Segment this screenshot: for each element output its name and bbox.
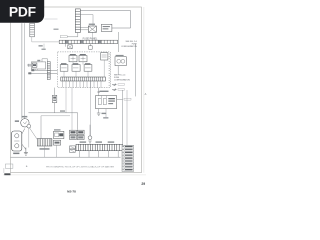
feeder wire to lamp cluster <box>71 88 73 131</box>
wire to terminal block <box>27 59 48 65</box>
breaker CB2 <box>72 63 80 71</box>
rectifier block (box with X) <box>88 26 96 32</box>
wires relays to terminal strip <box>64 60 104 77</box>
sheet code bottom left <box>4 173 10 175</box>
wire flasher down <box>117 66 119 75</box>
wire battery to ground <box>22 144 26 150</box>
revision box bottom left <box>4 164 13 173</box>
figure caption <box>26 165 115 168</box>
drop to connector box <box>40 116 42 139</box>
junction node circle <box>27 124 31 128</box>
diode D2 <box>54 140 61 145</box>
bus wire center (upper) <box>28 112 77 114</box>
second feed wire left <box>24 23 26 118</box>
fuse panel strip <box>59 40 117 43</box>
wires TB2 drops <box>79 151 118 158</box>
ground at battery <box>24 148 28 156</box>
connector C1 (vertical hatched) <box>47 62 50 80</box>
wire node to connector C2 <box>30 128 38 140</box>
wire stub from badge edge <box>45 19 59 30</box>
lamp L1 on center drop <box>52 88 56 113</box>
lamp cluster boxes <box>70 130 77 134</box>
horn relay label <box>100 91 109 92</box>
note SEE FIG 2-6 <box>121 41 137 48</box>
wire relay output right <box>117 98 131 100</box>
bus wire center (lower) <box>41 115 70 117</box>
fuse F1 below panel <box>66 44 73 49</box>
PDF badge overlay <box>0 0 44 23</box>
terminal strip TB2 (bottom) <box>76 144 122 150</box>
svg-text:A: A <box>145 92 147 96</box>
arrow tap A2 <box>112 89 125 91</box>
arrow tap A1 <box>112 84 125 86</box>
lamp cluster box 4 <box>77 135 84 139</box>
wire label on center bus <box>60 110 65 111</box>
svg-text:CONFIGURATION: CONFIGURATION <box>114 78 130 81</box>
wire J2 to fuse panel <box>32 37 59 42</box>
drop to lamp boxes <box>77 113 79 130</box>
wire battery to ammeter <box>22 129 25 135</box>
connector C2 (hatched box) <box>37 139 52 150</box>
svg-text:FUSE PANEL: FUSE PANEL <box>83 37 98 40</box>
feeder wire to center bus <box>65 88 67 113</box>
feed wire right pair <box>122 90 124 145</box>
dashed harness enclosure <box>58 52 111 88</box>
feed wire right pair b <box>126 90 128 145</box>
labels above bottom strip <box>80 141 115 142</box>
right margin feed wire <box>134 44 136 96</box>
wire relay coil up <box>97 88 100 96</box>
wires TB1 drops <box>63 81 102 88</box>
battery BAT <box>12 131 22 154</box>
svg-text:PDF: PDF <box>9 4 36 19</box>
wire C2 drop to bus <box>45 145 57 157</box>
lamp cluster box 2 <box>77 130 84 134</box>
wire from J1 to right margin <box>80 11 130 29</box>
breaker CB3 <box>84 63 92 71</box>
schematic sheet border frame <box>3 7 146 175</box>
ground below relay <box>97 109 106 116</box>
pigtail labels under fuse panel left <box>39 44 46 50</box>
legend table <box>122 145 134 171</box>
connector J2 (strip under badge) <box>30 23 35 37</box>
label above rectifier <box>89 24 95 25</box>
wire node to ground <box>28 128 30 147</box>
relay K2 <box>79 54 87 62</box>
wire bus into harness (lower) <box>28 72 57 74</box>
wire J1 to rectifier <box>80 28 88 30</box>
relay K3 <box>101 53 108 60</box>
common return wire (bottom bus) <box>11 156 121 158</box>
svg-text:CONFIGURATION: CONFIGURATION <box>121 45 137 48</box>
ammeter M1 <box>15 116 29 127</box>
wire bus into harness (upper) <box>31 69 57 71</box>
fuse F2 below panel <box>89 44 93 50</box>
main feed wire left (from J2 down) <box>21 23 23 119</box>
bulkhead hatching on enclosure right edge <box>109 54 111 85</box>
node label C2 wire <box>60 33 78 38</box>
connector C3 small stacked <box>70 146 76 153</box>
breaker CB1 <box>60 63 68 71</box>
ignition terminal block <box>31 60 45 69</box>
relay K1 <box>69 54 77 62</box>
horn relay box <box>96 96 117 109</box>
wire J1 branch to rectifier top <box>80 15 93 26</box>
relay aux terminal drop <box>103 109 108 119</box>
svg-text:PHOTOGRAPHIC HOOK-UP OF LIGHTS: PHOTOGRAPHIC HOOK-UP OF LIGHTS & BACK-UP… <box>46 165 114 168</box>
terminal strip TB1 inside harness box <box>61 77 106 81</box>
note SEE FIG 2-4 <box>114 74 130 81</box>
lamp cluster box 3 <box>70 135 77 139</box>
feeder wire to sender circuit <box>90 81 92 136</box>
wire fuse panel to flasher column <box>117 32 119 52</box>
connector J1 (top multi-pin strip) <box>75 9 80 33</box>
wire rectifier to fuse panel <box>91 32 93 40</box>
sender with lamp <box>88 125 92 144</box>
svg-text:NS-78: NS-78 <box>67 190 76 194</box>
ignition switch block <box>101 24 112 31</box>
diode assembly D1 <box>54 129 64 138</box>
svg-text:29: 29 <box>141 182 145 186</box>
inline connector on feed <box>28 64 30 67</box>
turn signal flasher <box>115 55 126 66</box>
